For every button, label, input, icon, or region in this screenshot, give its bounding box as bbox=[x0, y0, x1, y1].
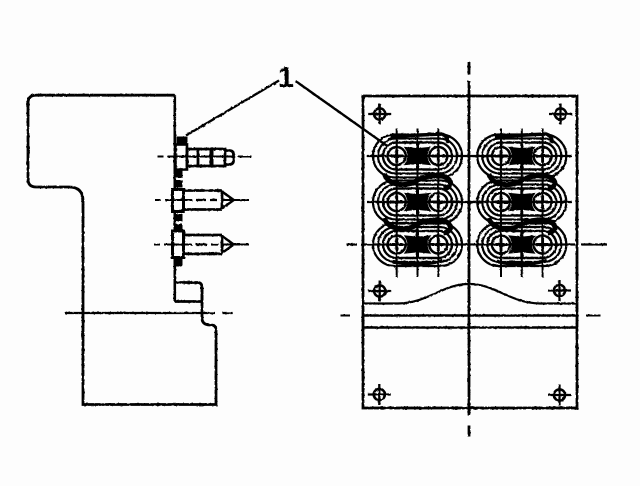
front view: injector circles right column row 3 bbox=[492, 236, 552, 254]
fitting 2 centerline bbox=[155, 199, 249, 201]
front view: injector pair right column row 1: concentric ovals bbox=[477, 135, 566, 178]
front view: injector pair left column row 2: concentric ovals bbox=[373, 181, 462, 224]
left view: mounting tab above fitting 1 bbox=[177, 137, 188, 145]
front view: row 2 horizontal centerline bbox=[367, 201, 572, 203]
fitting 1 flange bbox=[176, 145, 188, 170]
fitting 1 body segment line b bbox=[210, 149, 214, 166]
front view: lockwire S-curve left column between rows 2-3 bbox=[385, 218, 451, 233]
front view: row 3 horizontal centerline bbox=[347, 243, 608, 245]
left view: serration tooth c bbox=[175, 214, 183, 221]
fitting 2 nose cone bbox=[222, 192, 234, 209]
front view: lockwire top bar left column bbox=[391, 134, 448, 143]
front view: plate outline bbox=[363, 96, 577, 408]
front view: injector circles right column row 1 bbox=[492, 147, 552, 165]
left view: serration tooth e bbox=[175, 257, 183, 267]
fitting 3 centerline bbox=[154, 244, 249, 246]
front view: lockwire top bar right column bbox=[495, 134, 552, 143]
front view: lockwire knot left column row 2 bbox=[405, 189, 430, 215]
fitting 3 nose cone bbox=[222, 236, 234, 253]
front view: left column vertical centerlines bbox=[397, 129, 439, 278]
left view: right edge of block bbox=[174, 95, 177, 301]
fitting 3 inner dashes bbox=[196, 243, 219, 245]
front view: hole bottom-right bbox=[548, 385, 571, 406]
front view: right column vertical centerlines bbox=[501, 129, 543, 278]
front view: lockwire bottom bar right column bbox=[497, 261, 547, 265]
leader line to front view bbox=[296, 81, 389, 147]
front view: hole mid-left bbox=[368, 281, 391, 302]
front view: upper split line bbox=[363, 314, 577, 316]
front view: injector circles right column row 2 bbox=[492, 193, 552, 211]
front view: injector pair left column row 1: concentric ovals bbox=[373, 135, 462, 178]
front view: injector pair left column row 3: concentric ovals bbox=[373, 223, 462, 266]
front view: hole mid-right bbox=[548, 280, 571, 301]
front view: row 1 horizontal centerline bbox=[367, 155, 572, 157]
front view: injector pair right column row 3: concentric ovals bbox=[477, 223, 566, 266]
left view: bracket rectangle bbox=[175, 283, 202, 302]
fitting 3 flange bbox=[173, 231, 184, 258]
front view: injector circles left column row 2 bbox=[388, 193, 448, 211]
fitting 1 end cap bbox=[225, 151, 234, 165]
left view: serration tooth d bbox=[175, 224, 183, 230]
fitting 1 centerline bbox=[158, 156, 252, 158]
fitting 1 body bbox=[187, 149, 225, 166]
fitting 2 body bbox=[184, 191, 223, 210]
front view: horizontal centerline dashes bbox=[341, 315, 601, 317]
left view: serration tooth a bbox=[175, 171, 183, 179]
front view: lockwire bottom bar left column bbox=[393, 261, 443, 265]
front view: injector pair right column row 2: concentric ovals bbox=[477, 181, 566, 224]
left view: serration tooth b bbox=[175, 180, 183, 188]
front view: lockwire S-curve right column between rows 1-2 bbox=[489, 174, 555, 189]
front view: lockwire knot left column row 3 bbox=[405, 232, 430, 258]
front view: lockwire knot right column row 1 bbox=[509, 143, 534, 169]
front view: lockwire S-curve left column between rows 1-2 bbox=[385, 174, 451, 189]
leader line to side view bbox=[186, 81, 279, 136]
fitting 1 body segment line a bbox=[197, 149, 200, 166]
front view: lockwire S-curve right column between rows 2-3 bbox=[489, 218, 555, 233]
front view: injector circles left column row 3 bbox=[388, 236, 448, 254]
svg-text:1: 1 bbox=[278, 62, 294, 94]
fitting 3 body bbox=[184, 235, 223, 254]
front view: lockwire knot right column row 3 bbox=[509, 232, 534, 258]
front view: lockwire knot left column row 1 bbox=[405, 143, 430, 169]
front view: hole top-left bbox=[368, 104, 391, 125]
front view: lockwire knot right column row 2 bbox=[509, 189, 534, 215]
front view: vertical centerline bbox=[468, 62, 471, 437]
front view: gasket hump curve bbox=[363, 284, 577, 304]
left view: block outline bbox=[28, 95, 216, 404]
front view: hole top-right bbox=[549, 104, 572, 125]
front view: injector circles left column row 1 bbox=[388, 147, 448, 165]
left view: horizontal centerline of base bbox=[65, 312, 233, 314]
front view: lower split line bbox=[363, 326, 577, 328]
fitting 2 flange bbox=[173, 190, 184, 212]
fitting 2 inner dashes bbox=[196, 199, 217, 201]
front view: hole bottom-left bbox=[368, 384, 391, 405]
